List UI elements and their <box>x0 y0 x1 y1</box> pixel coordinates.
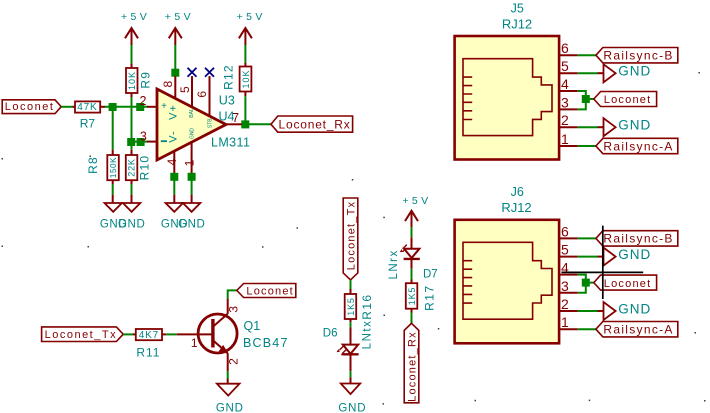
wire R8 to gnd <box>112 184 114 195</box>
wire R10 to gnd <box>131 184 133 195</box>
graphic line horizontal (black) <box>562 271 644 273</box>
resistor R10 <box>126 150 152 184</box>
J6 pin 2 <box>559 310 578 312</box>
svg-text:2: 2 <box>561 112 569 128</box>
wire R16 to D6 <box>350 322 352 327</box>
power GND (J5 pin5) <box>598 64 652 83</box>
node junction main2 <box>136 103 144 111</box>
svg-text:GND: GND <box>118 219 145 231</box>
wire pins3-4 jog (J6) <box>578 275 594 293</box>
wire label to R11 <box>123 333 133 335</box>
svg-text:V+: V+ <box>167 104 179 120</box>
svg-text:10K: 10K <box>127 71 137 90</box>
wire pin2 to gnd <box>578 126 598 128</box>
svg-text:1: 1 <box>561 314 569 330</box>
svg-text:2: 2 <box>227 358 241 365</box>
svg-text:+5V: +5V <box>237 11 266 23</box>
svg-text:22K: 22K <box>126 158 136 176</box>
wire pin1 to gnd <box>191 180 193 194</box>
svg-text:Loconet: Loconet <box>246 285 294 297</box>
wire emitter to gnd <box>227 371 229 378</box>
global label Loconet_Tx <box>42 327 124 342</box>
svg-text:1K5: 1K5 <box>407 287 417 305</box>
ground under R8 <box>100 195 127 231</box>
svg-text:3: 3 <box>561 94 569 110</box>
resistor R17 <box>406 280 437 313</box>
svg-text:Loconet: Loconet <box>604 94 652 106</box>
J5 pin 2 <box>559 126 578 128</box>
svg-text:U3: U3 <box>219 94 235 108</box>
global label Railsync-A (J5) <box>596 138 678 153</box>
svg-text:3: 3 <box>561 278 569 294</box>
global label Railsync-B (J5) <box>596 48 678 63</box>
svg-text:5: 5 <box>561 242 569 258</box>
global label Loconet_Tx (vertical) <box>343 198 358 280</box>
svg-text:V-: V- <box>167 130 179 142</box>
pin 4 <box>173 151 175 173</box>
svg-text:8: 8 <box>161 80 175 87</box>
svg-text:RJ12: RJ12 <box>502 17 532 32</box>
svg-text:1: 1 <box>182 159 196 166</box>
svg-text:J5: J5 <box>511 2 524 16</box>
global label Railsync-B (J6) <box>596 231 678 246</box>
svg-text:47K: 47K <box>77 102 97 113</box>
svg-text:4: 4 <box>561 76 569 92</box>
J6 pin 1 <box>559 328 578 330</box>
J6 pin 4 <box>559 274 578 276</box>
junction pin1 <box>188 173 196 181</box>
wire pin2 to gnd <box>578 310 598 312</box>
pin 3 stub <box>147 141 157 143</box>
svg-text:R12: R12 <box>222 64 236 90</box>
svg-text:R8: R8 <box>86 156 100 174</box>
svg-text:150K: 150K <box>109 157 118 178</box>
wire +5V to R9 <box>131 45 133 64</box>
power +5V (D7) <box>402 195 431 227</box>
svg-text:RJ12: RJ12 <box>501 200 531 215</box>
grid dots <box>2 72 706 405</box>
ground D6 <box>338 377 366 413</box>
pin 7 output stub <box>226 123 242 125</box>
node junction pin3 a <box>127 138 135 146</box>
svg-text:Loconet_Rx: Loconet_Rx <box>406 331 418 402</box>
svg-text:Q1: Q1 <box>244 319 261 333</box>
svg-text:GND: GND <box>216 402 244 413</box>
ground under pin4 <box>161 195 188 231</box>
wire output to label <box>249 123 271 125</box>
global label Loconet (J6) <box>594 275 657 290</box>
LED D7 <box>388 237 438 280</box>
resistor R9 <box>126 64 153 98</box>
J6 pin 6 <box>559 237 578 239</box>
svg-text:Railsync-A: Railsync-A <box>603 139 673 153</box>
J5 pin 3 <box>559 108 578 110</box>
wire R11 to base <box>166 333 177 335</box>
svg-text:Loconet_Tx: Loconet_Tx <box>345 201 357 270</box>
wire pin1 to label <box>578 328 596 330</box>
svg-text:3: 3 <box>226 306 240 313</box>
svg-text:1: 1 <box>561 131 569 147</box>
power GND (J5 pin2) <box>598 118 652 137</box>
wire pin3 row <box>128 141 148 143</box>
node junction R8 <box>109 103 117 111</box>
ground under R10 <box>118 195 145 231</box>
svg-text:1K5: 1K5 <box>346 297 356 315</box>
J5 pin 1 <box>559 145 578 147</box>
svg-text:Railsync-B: Railsync-B <box>603 232 673 246</box>
svg-text:R7: R7 <box>80 116 96 130</box>
power +5V (over R12) <box>237 11 266 45</box>
svg-text:GND: GND <box>338 402 366 413</box>
wire R7 to pin2 <box>105 106 148 108</box>
resistor R11 <box>133 329 166 359</box>
resistor R8 <box>86 150 119 184</box>
op-amp U4 LM311 body <box>157 89 226 160</box>
svg-text:+5V: +5V <box>121 11 150 23</box>
J5 jack outline <box>463 59 552 136</box>
pin 8 <box>174 76 176 99</box>
svg-text:BAL: BAL <box>189 108 195 118</box>
svg-text:R17: R17 <box>422 285 436 311</box>
svg-text:J6: J6 <box>511 185 524 199</box>
J6 pin 3 <box>559 292 578 294</box>
node output junction <box>241 120 249 128</box>
pin 2 stub <box>147 106 157 108</box>
global label Loconet_Rx (vertical) <box>404 323 419 403</box>
svg-text:GND: GND <box>189 128 195 140</box>
svg-text:Loconet_Tx: Loconet_Tx <box>45 329 117 341</box>
no-connect X pin5 <box>188 68 197 77</box>
ground Q1 <box>216 379 244 413</box>
pin 6 <box>209 76 211 116</box>
wire junction down to R8 <box>112 110 114 150</box>
svg-text:Railsync-B: Railsync-B <box>603 49 673 63</box>
svg-text:4: 4 <box>165 158 179 165</box>
power GND (J6 pin5) <box>598 247 652 266</box>
wire R17 to label <box>411 313 413 324</box>
svg-text:Loconet_Rx: Loconet_Rx <box>279 118 351 132</box>
junction pin8 <box>171 69 179 77</box>
svg-text:5: 5 <box>178 86 192 93</box>
svg-text:4K7: 4K7 <box>139 330 159 341</box>
svg-text:R16: R16 <box>360 293 374 319</box>
svg-text:10K: 10K <box>241 69 251 88</box>
svg-text:GND: GND <box>618 301 651 316</box>
global label Loconet_Rx <box>271 116 353 132</box>
svg-text:6: 6 <box>561 223 569 239</box>
wire +5V to D7 <box>411 227 413 237</box>
power +5V (over pin 8) <box>165 11 194 45</box>
wire label to R7 <box>61 106 72 108</box>
svg-text:2: 2 <box>561 296 569 312</box>
resistor R16 <box>345 289 374 322</box>
pin 5 <box>191 76 193 107</box>
svg-text:U4: U4 <box>219 109 235 123</box>
J5 pin 5 <box>559 72 578 74</box>
svg-text:D7: D7 <box>423 269 438 281</box>
graphic line vertical (black) <box>602 226 604 299</box>
transistor Q1 <box>177 298 289 371</box>
wire pin5 to gnd <box>578 72 598 74</box>
connector J6 body <box>455 220 559 343</box>
svg-text:LM311: LM311 <box>211 135 250 149</box>
svg-text:D6: D6 <box>323 328 338 340</box>
global label Railsync-A (J6) <box>596 322 678 337</box>
svg-text:+: + <box>161 101 167 112</box>
wire pin6 to label <box>578 237 596 239</box>
junction J5 loconet <box>582 95 590 103</box>
svg-text:Railsync-A: Railsync-A <box>603 323 673 337</box>
svg-text:+5V: +5V <box>165 11 194 23</box>
svg-text:2: 2 <box>140 94 147 108</box>
wire pins3-4 jog <box>578 91 594 109</box>
no-connect X pin6 <box>205 68 214 77</box>
svg-text:GND: GND <box>618 247 651 262</box>
power GND (J6 pin2) <box>598 301 652 320</box>
J5 pin 4 <box>559 90 578 92</box>
global label Loconet (left input) <box>2 100 61 114</box>
svg-text:R11: R11 <box>136 345 160 359</box>
wire R12 to output <box>244 96 246 124</box>
svg-text:1: 1 <box>191 336 198 350</box>
wire pin5 to gnd <box>578 256 598 258</box>
power +5V (over R9) <box>121 11 150 45</box>
resistor R7 <box>73 101 106 130</box>
connector J5 body <box>455 36 559 160</box>
svg-text:6: 6 <box>195 91 209 98</box>
wire D6 to gnd <box>350 371 352 377</box>
svg-text:3: 3 <box>140 130 147 144</box>
resistor R12 <box>222 63 252 96</box>
LED D6 <box>323 320 374 372</box>
svg-text:R9: R9 <box>139 71 153 89</box>
junction J6 loconet <box>582 279 590 287</box>
pin 1 <box>191 142 193 173</box>
global label Loconet (J5) <box>594 92 657 107</box>
svg-text:GND: GND <box>178 219 205 231</box>
svg-text:5: 5 <box>561 58 569 74</box>
svg-text:Loconet: Loconet <box>5 101 55 113</box>
svg-text:LNrx: LNrx <box>388 249 400 279</box>
ground under pin1 <box>178 195 205 231</box>
svg-text:6: 6 <box>561 40 569 56</box>
svg-text:LNtx: LNtx <box>361 320 373 350</box>
wire pin1 to label <box>578 145 596 147</box>
wire +5V to pin 8 <box>174 45 176 70</box>
global label Loconet (Q1) <box>237 284 296 298</box>
svg-text:Loconet: Loconet <box>604 278 652 290</box>
wire label to R16 <box>350 280 352 289</box>
wire pin4 to gnd <box>173 180 175 194</box>
wire D7 to R17 <box>411 269 413 280</box>
wire pin6 to label <box>578 54 596 56</box>
svg-text:+5V: +5V <box>402 195 431 207</box>
svg-text:R10: R10 <box>138 155 152 181</box>
J6 pin 5 <box>559 256 578 258</box>
node junction pin3 b <box>137 138 145 146</box>
J6 jack outline <box>463 242 552 319</box>
svg-text:GND: GND <box>618 118 651 133</box>
svg-text:STB: STB <box>207 118 213 128</box>
junction pin4 <box>170 173 178 181</box>
wire collector up <box>228 290 237 298</box>
wire R9 down to pin3 row <box>131 97 133 149</box>
wire +5V to R12 <box>244 45 246 63</box>
J5 pin 6 <box>559 54 578 56</box>
svg-text:GND: GND <box>618 64 651 79</box>
svg-text:BCB47: BCB47 <box>243 336 289 350</box>
